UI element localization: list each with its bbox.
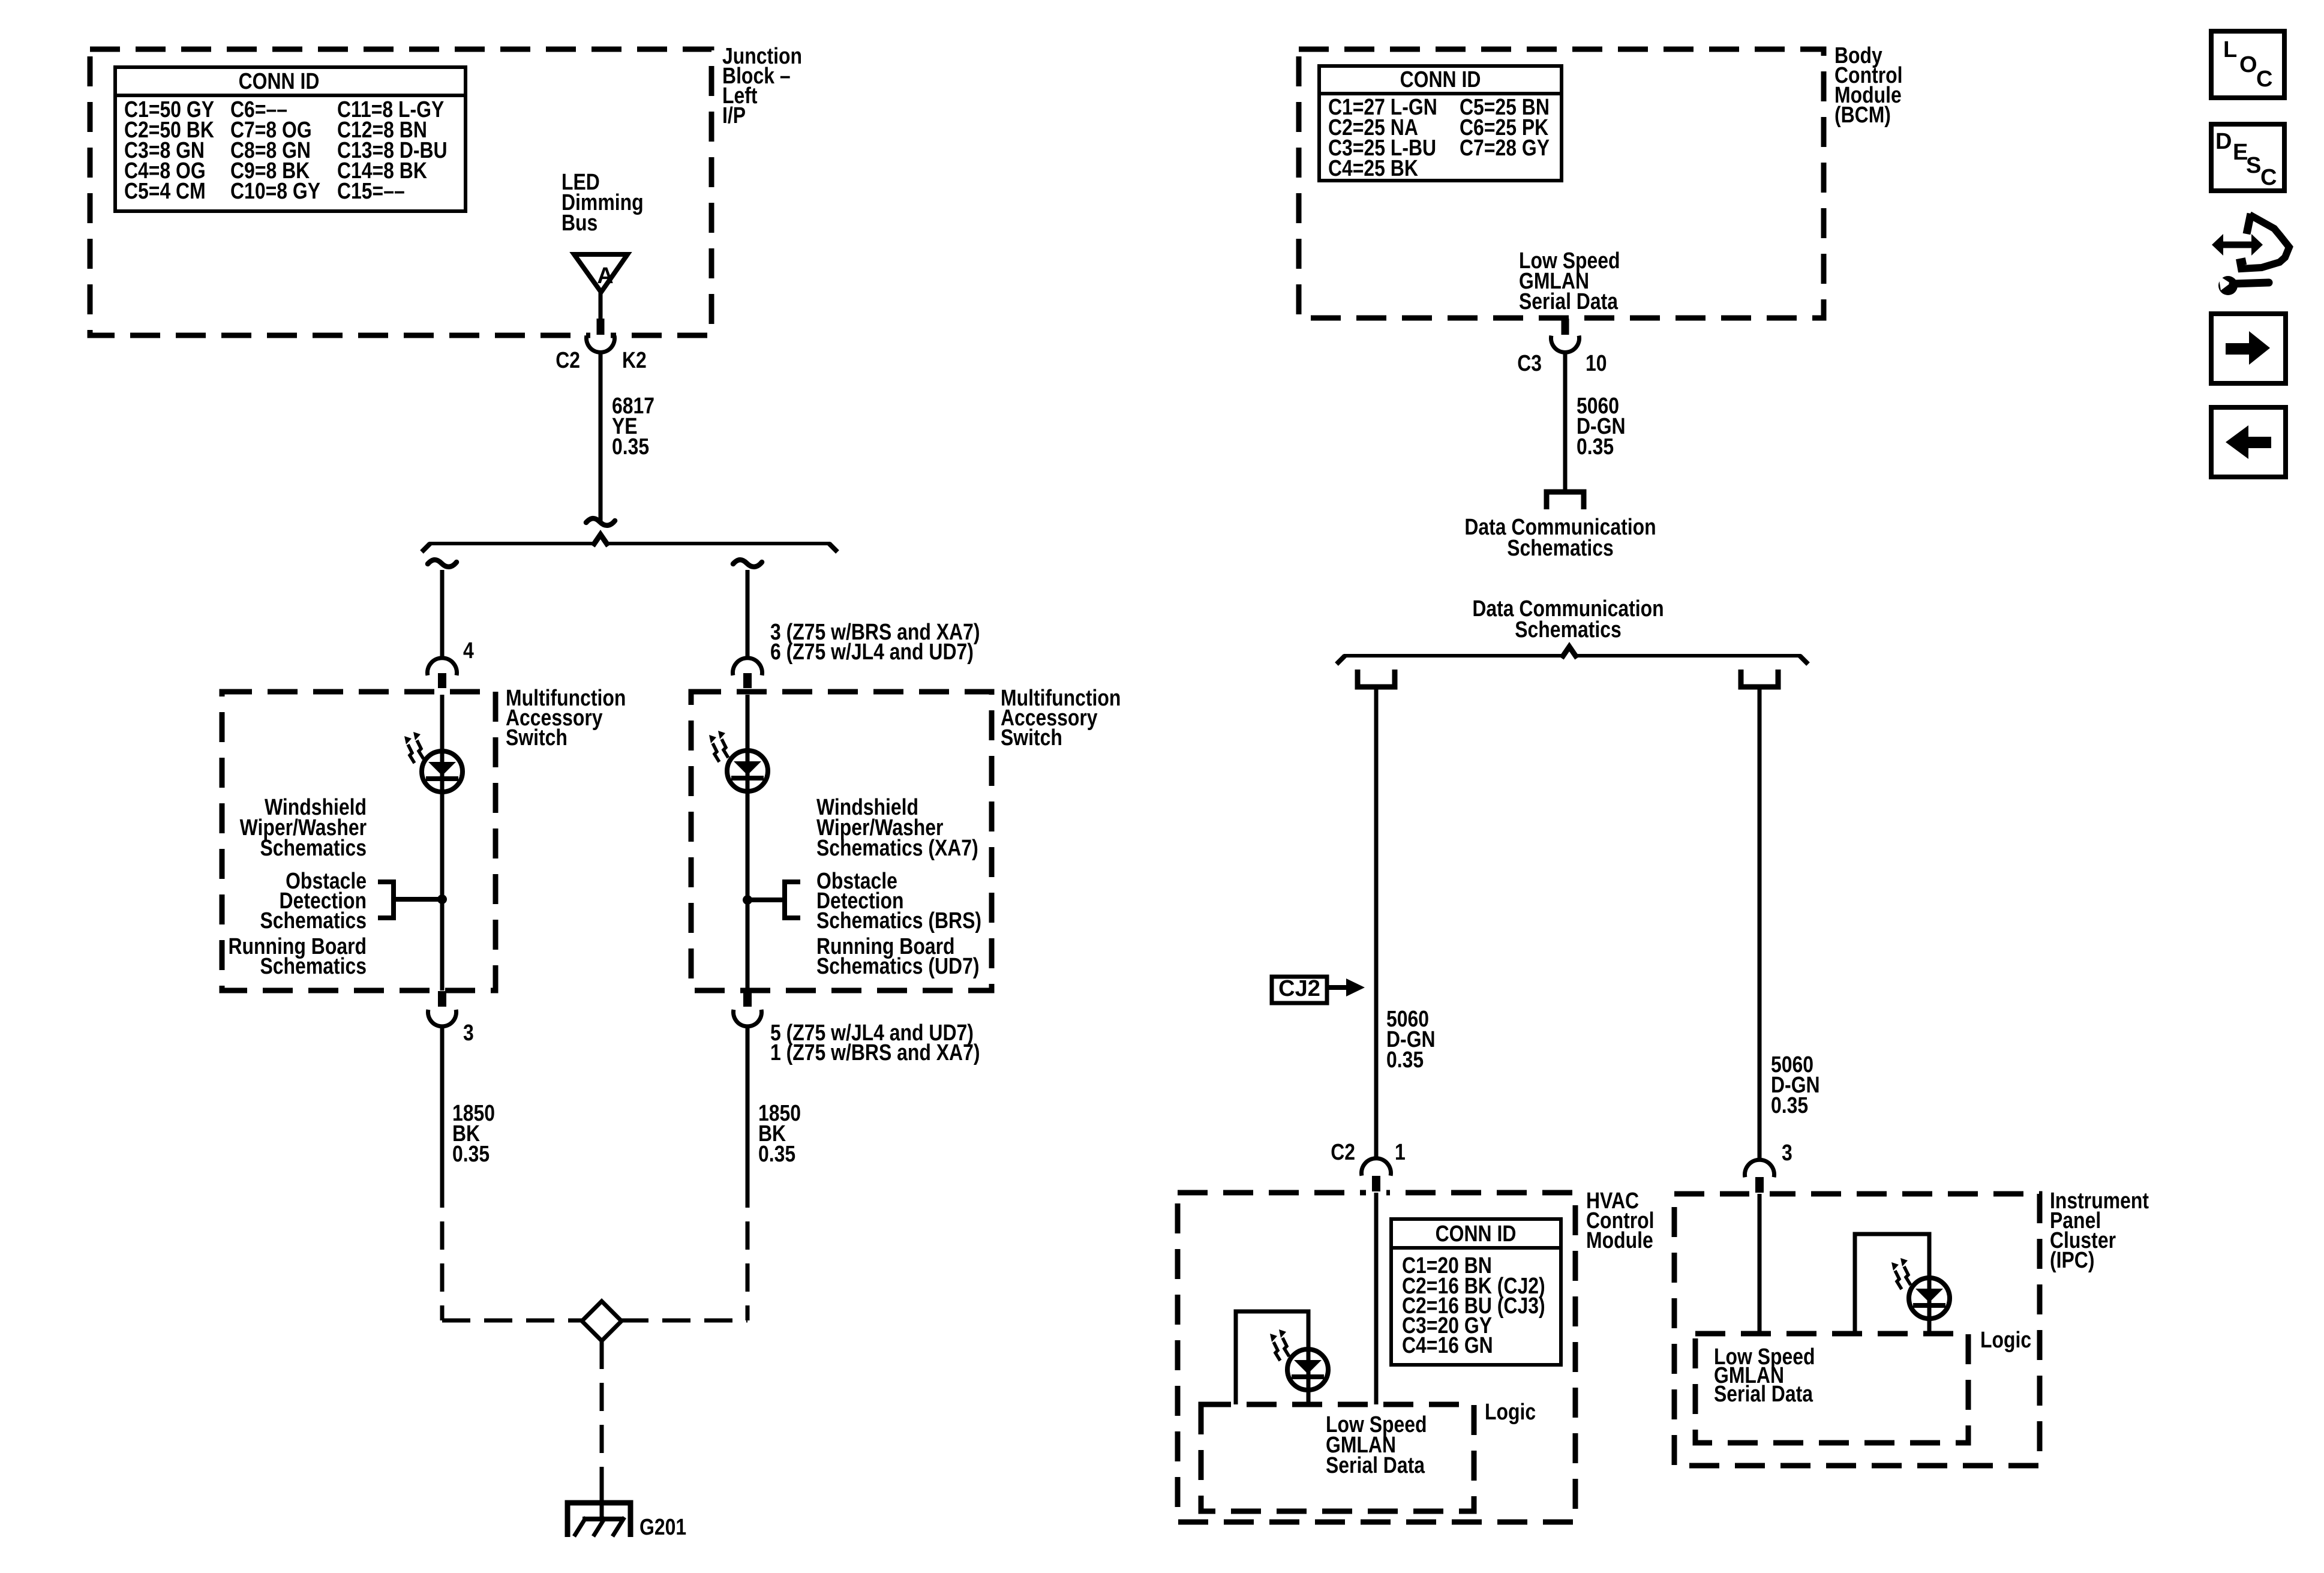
connector cup (pin 3) <box>428 1010 456 1026</box>
LED arrows (IPC) <box>1891 1262 1902 1289</box>
svg-text:Schematics (UD7): Schematics (UD7) <box>816 954 980 979</box>
IPC logic dashed box <box>1695 1334 1968 1443</box>
svg-text:CJ2: CJ2 <box>1278 976 1320 1001</box>
junction dot (right) <box>743 895 752 905</box>
ground G201 symbol <box>568 1503 630 1537</box>
connector dome C2/1 (HVAC) <box>1362 1158 1391 1176</box>
svg-text:4: 4 <box>463 638 474 664</box>
svg-text:C5=4 CM: C5=4 CM <box>124 179 206 204</box>
junction block dashed box: Junction Block - Left I/P <box>90 49 711 335</box>
svg-text:1 (Z75 w/BRS and XA7): 1 (Z75 w/BRS and XA7) <box>770 1040 980 1065</box>
svg-text:Schematics: Schematics <box>260 836 367 861</box>
svg-text:Schematics (XA7): Schematics (XA7) <box>816 836 978 861</box>
svg-text:C: C <box>2260 165 2277 190</box>
svg-text:CONN ID: CONN ID <box>1400 67 1481 92</box>
LED (HVAC) <box>1287 1349 1328 1390</box>
svg-text:Switch: Switch <box>506 725 568 751</box>
icon: forward arrow box <box>2211 314 2286 383</box>
wire: left branch down to switch <box>440 570 445 659</box>
icon: back arrow box <box>2211 407 2286 477</box>
LED frame (HVAC) <box>1236 1311 1308 1404</box>
svg-text:1: 1 <box>1395 1140 1406 1165</box>
CONN ID table (HVAC) <box>1391 1219 1561 1365</box>
pin into IPC (over box edge) <box>1755 1177 1764 1193</box>
connector cup (pins 5/1) <box>734 1010 762 1026</box>
connector C2/K2 pin <box>597 319 605 335</box>
svg-text:Serial Data: Serial Data <box>1714 1382 1813 1407</box>
svg-text:0.35: 0.35 <box>1386 1047 1424 1073</box>
CJ2 arrow <box>1327 985 1347 990</box>
LED (right switch) <box>727 751 768 791</box>
svg-text:K2: K2 <box>622 348 647 373</box>
svg-text:3: 3 <box>463 1020 474 1046</box>
wire into IPC logic <box>1758 1194 1762 1335</box>
wire through right switch <box>746 695 750 990</box>
LED arrows (right switch) <box>709 735 719 762</box>
CONN ID table (BCM) <box>1319 66 1562 181</box>
svg-text:C4=16 GN: C4=16 GN <box>1402 1333 1493 1358</box>
wire 5060 D-GN (IPC branch) <box>1758 689 1762 1161</box>
LED arrows (HVAC) <box>1270 1334 1280 1361</box>
pin into HVAC (over box edge) <box>1372 1176 1380 1191</box>
wire: triangle to box edge <box>599 292 603 320</box>
svg-text:C7=28 GY: C7=28 GY <box>1460 136 1550 161</box>
wire break curl (left branch) <box>428 560 457 567</box>
svg-text:Schematics (BRS): Schematics (BRS) <box>816 908 981 933</box>
dashed ground wire left <box>440 1208 445 1320</box>
LED frame (IPC) <box>1855 1234 1929 1335</box>
LED (IPC) <box>1909 1278 1950 1319</box>
wire into HVAC logic <box>1374 1193 1379 1404</box>
svg-text:0.35: 0.35 <box>1771 1093 1808 1118</box>
right Multifunction Accessory Switch dashed box <box>691 692 992 990</box>
svg-text:10: 10 <box>1586 351 1607 376</box>
connector dome (pin 4) <box>428 658 457 676</box>
svg-text:Schematics: Schematics <box>1515 617 1622 643</box>
svg-text:C3: C3 <box>1517 351 1542 376</box>
svg-text:O: O <box>2239 52 2257 77</box>
obstacle detection bracket (right) <box>785 882 800 918</box>
svg-text:I/P: I/P <box>722 103 746 128</box>
svg-text:C2: C2 <box>1331 1140 1355 1165</box>
svg-text:6 (Z75 w/JL4 and UD7): 6 (Z75 w/JL4 and UD7) <box>770 640 974 665</box>
wire 1850 BK right <box>746 1025 750 1208</box>
svg-text:S: S <box>2246 153 2261 178</box>
ground stem <box>600 1479 604 1519</box>
dashed ground bus horizontal <box>442 1319 583 1323</box>
svg-text:0.35: 0.35 <box>758 1142 795 1167</box>
IPC dashed box <box>1674 1194 2040 1466</box>
svg-text:Switch: Switch <box>1001 725 1062 751</box>
wire break curl (main feed) <box>586 518 615 526</box>
LED arrows (left switch) <box>404 736 415 763</box>
pin 5/1 out of right switch <box>743 991 752 1007</box>
data communication brace <box>1344 654 1562 658</box>
off-page connector (right data branch) <box>1741 670 1778 687</box>
svg-text:Schematics: Schematics <box>260 954 367 979</box>
svg-text:CONN ID: CONN ID <box>239 69 320 94</box>
svg-text:0.35: 0.35 <box>452 1142 490 1167</box>
svg-text:Logic: Logic <box>1485 1400 1536 1425</box>
pin into left switch <box>438 673 446 688</box>
CONN ID table (Junction Block) <box>115 67 466 211</box>
svg-text:3: 3 <box>1782 1140 1792 1166</box>
splice diamond <box>582 1301 621 1341</box>
svg-text:(IPC): (IPC) <box>2050 1248 2095 1273</box>
wire 5060 D-GN (BCM) <box>1563 351 1568 490</box>
svg-text:C2: C2 <box>556 348 580 373</box>
icon: DESC box <box>2211 124 2284 191</box>
BCM dashed box <box>1299 49 1824 318</box>
svg-text:C4=25 BK: C4=25 BK <box>1328 156 1418 181</box>
icon: LOC box <box>2211 31 2284 98</box>
junction dot (left) <box>437 894 447 904</box>
CJ2 flag box <box>1272 977 1327 1003</box>
wire through left switch <box>440 695 445 990</box>
pin into IPC <box>1755 1177 1764 1193</box>
wire 5060 D-GN (HVAC branch) <box>1374 689 1379 1159</box>
connector C2/K2 cup <box>586 336 614 353</box>
svg-text:Schematics: Schematics <box>260 908 367 933</box>
svg-text:Bus: Bus <box>562 211 597 236</box>
svg-text:D: D <box>2215 129 2232 154</box>
svg-text:Serial Data: Serial Data <box>1326 1453 1425 1478</box>
svg-text:Module: Module <box>1586 1228 1653 1253</box>
svg-text:Serial Data: Serial Data <box>1519 289 1619 314</box>
svg-text:L: L <box>2223 37 2237 62</box>
svg-text:A: A <box>597 263 613 289</box>
svg-text:CONN ID: CONN ID <box>1436 1221 1517 1247</box>
obstacle detection bracket (left) <box>378 882 394 918</box>
svg-text:(BCM): (BCM) <box>1834 103 1891 128</box>
splice bus bar (horizontal brace) <box>429 542 593 545</box>
connector dome 3 (IPC) <box>1745 1160 1774 1177</box>
wire: right branch down to switch <box>746 570 750 659</box>
left Multifunction Accessory Switch dashed box <box>222 692 496 990</box>
svg-text:C10=8 GY: C10=8 GY <box>230 179 320 204</box>
pin 3 out of left switch <box>438 991 446 1007</box>
pin into right switch <box>743 673 752 688</box>
svg-text:C15=––: C15=–– <box>337 179 405 204</box>
connector C3/10 cup <box>1551 336 1580 353</box>
off-page connector (BCM to data comm) <box>1547 492 1584 509</box>
dashed wire to ground <box>600 1341 604 1488</box>
svg-text:0.35: 0.35 <box>612 434 649 460</box>
pin into HVAC <box>1372 1176 1380 1191</box>
dashed ground wire right <box>746 1208 750 1320</box>
buffer triangle A (LED dimming bus driver) <box>574 254 627 292</box>
wire 1850 BK left <box>440 1025 445 1208</box>
wire 6817 YE 0.35 <box>599 351 603 523</box>
connector dome (pins 3/6) <box>733 658 762 676</box>
connector C3/10 pin <box>1562 319 1569 335</box>
svg-text:Schematics: Schematics <box>1507 536 1614 561</box>
HVAC Control Module dashed box <box>1178 1193 1575 1522</box>
LED (left switch) <box>422 751 463 792</box>
svg-text:C: C <box>2256 67 2272 92</box>
wire break curl (right branch) <box>733 560 762 567</box>
svg-text:0.35: 0.35 <box>1577 434 1614 460</box>
icon: diagnostic (arrow + hook + wrench) <box>2212 214 2289 295</box>
svg-text:G201: G201 <box>639 1515 686 1540</box>
svg-text:Logic: Logic <box>1980 1328 2031 1353</box>
off-page connector (left data branch) <box>1358 670 1395 687</box>
HVAC logic dashed box <box>1201 1404 1474 1511</box>
